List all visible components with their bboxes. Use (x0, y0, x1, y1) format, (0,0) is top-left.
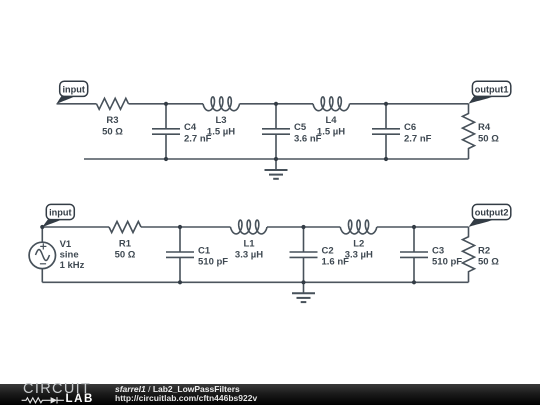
svg-text:50 Ω: 50 Ω (478, 133, 499, 144)
ground (bottom circuit) (292, 282, 315, 302)
V1 minus sign (40, 263, 46, 265)
svg-text:C2: C2 (322, 246, 334, 257)
svg-text:output2: output2 (475, 208, 509, 218)
wire bottom rail of bottom circuit (42, 281, 468, 283)
capacitor C3 (400, 227, 428, 282)
svg-text:3.3 µH: 3.3 µH (235, 250, 263, 261)
svg-text:C3: C3 (432, 246, 444, 257)
junction node C6 top (384, 102, 388, 106)
svg-text:L4: L4 (325, 115, 337, 126)
wire R1 to node C1 (141, 226, 180, 228)
svg-text:sine: sine (60, 249, 79, 260)
junction node C2 top (301, 225, 305, 229)
junction node C1 top (178, 225, 182, 229)
inductor L4 (313, 97, 350, 111)
svg-text:50 Ω: 50 Ω (102, 127, 123, 138)
svg-text:50 Ω: 50 Ω (478, 257, 499, 268)
svg-text:3.3 µH: 3.3 µH (345, 250, 373, 261)
svg-text:1.6 nF: 1.6 nF (322, 257, 350, 268)
wire node C2 to L2 left (304, 226, 341, 228)
ground (top circuit) (265, 159, 288, 179)
footer bar (0, 384, 540, 405)
logo LAB text (66, 393, 94, 405)
resistor R4 (vertical) (463, 104, 475, 159)
svg-text:2.7 nF: 2.7 nF (404, 133, 432, 144)
junction node C2 bottom / ground (301, 280, 305, 284)
junction node C5 top (274, 102, 278, 106)
wire R3 to node C4 (129, 103, 167, 105)
svg-text:C6: C6 (404, 122, 416, 133)
svg-text:R2: R2 (478, 246, 490, 257)
svg-text:L3: L3 (215, 115, 226, 126)
svg-text:input: input (49, 208, 71, 218)
resistor R2 (vertical) (463, 227, 475, 282)
logo schematic art (resistor + diode) (21, 396, 65, 405)
junction node C4 bottom (164, 157, 168, 161)
wire L1 to node C2 (267, 226, 304, 228)
svg-text:50 Ω: 50 Ω (115, 250, 136, 261)
svg-text:output1: output1 (475, 84, 509, 94)
capacitor C6 (372, 104, 400, 159)
svg-text:V1: V1 (60, 239, 72, 250)
flag output1 (node output1) (469, 96, 495, 104)
svg-text:510 pF: 510 pF (432, 257, 462, 268)
voltage source V1 (sine) (29, 227, 55, 282)
flag input (bottom circuit, node input) (42, 219, 62, 227)
svg-text:R3: R3 (106, 115, 118, 126)
wire node C6 to output1 corner (386, 103, 469, 105)
wire L3 to node C5 (240, 103, 277, 105)
svg-text:R4: R4 (478, 122, 491, 133)
flag output2 (node output2) (469, 219, 495, 227)
svg-text:C1: C1 (198, 246, 211, 257)
capacitor C1 (166, 227, 194, 282)
svg-text:C4: C4 (184, 122, 197, 133)
wire node C1 to L1 left (180, 226, 231, 228)
footer title sfarrel1 / Lab2_LowPassFilters (115, 384, 240, 394)
flag input (top circuit, node input) (57, 96, 76, 104)
inductor L1 (231, 220, 268, 234)
wire input-flag to R3 left (57, 103, 97, 105)
junction node input2 corner (40, 225, 44, 229)
resistor R1 (109, 222, 141, 233)
resistor R3 (97, 98, 129, 109)
inductor L3 (203, 97, 240, 111)
junction node C4 top (164, 102, 168, 106)
wire L4 to node C6 (350, 103, 387, 105)
junction node C3 top (412, 225, 416, 229)
wire L2 to node C3 (377, 226, 414, 228)
footer url (115, 393, 257, 403)
wire V1 top to R1 left (42, 226, 109, 228)
svg-text:R1: R1 (119, 238, 132, 249)
junction node C6 bottom (384, 157, 388, 161)
logo CIRCUIT text (23, 381, 91, 397)
wire node C3 to output2 corner (414, 226, 469, 228)
svg-text:1 kHz: 1 kHz (60, 260, 85, 271)
capacitor C4 (152, 104, 180, 159)
junction node C3 bottom (412, 280, 416, 284)
inductor L2 (340, 220, 377, 234)
wire node C5 to L4 left (276, 103, 313, 105)
svg-text:input: input (62, 84, 84, 94)
wire bottom rail of top circuit (84, 158, 469, 160)
svg-text:L1: L1 (243, 238, 255, 249)
capacitor C5 (262, 104, 290, 159)
svg-text:L2: L2 (353, 238, 364, 249)
V1 plus sign (40, 243, 46, 249)
junction node C1 bottom (178, 280, 182, 284)
svg-text:C5: C5 (294, 122, 307, 133)
wire node C4 to L3 left (166, 103, 203, 105)
junction node C5 bottom / ground (274, 157, 278, 161)
svg-text:3.6 nF: 3.6 nF (294, 133, 322, 144)
capacitor C2 (290, 227, 318, 282)
svg-text:2.7 nF: 2.7 nF (184, 133, 212, 144)
svg-text:510 pF: 510 pF (198, 257, 228, 268)
